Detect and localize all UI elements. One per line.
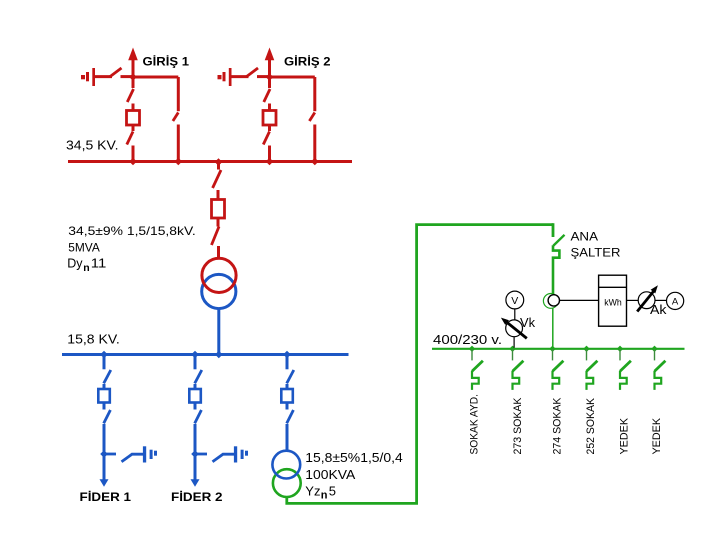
transformer circuit breaker box (212, 200, 225, 219)
feeder GİRİŞ 2 incoming arrow (265, 48, 275, 78)
disconnector below breaker of GİRİŞ 1 (127, 125, 133, 162)
voltmeter V (506, 291, 524, 309)
circuit breaker box of GİRİŞ 1 (127, 111, 140, 126)
circuit breaker box of GİRİŞ 2 (263, 111, 276, 126)
svg-text:GİRİŞ 1: GİRİŞ 1 (143, 53, 190, 68)
svg-text:273 SOKAK: 273 SOKAK (512, 397, 524, 455)
disconnector above transformer breaker (213, 162, 221, 200)
node at top of GİRİŞ 1 branch (129, 73, 137, 81)
node of 252 SOKAK on 400V bus (583, 346, 589, 352)
wire kWh to Ak (627, 299, 639, 301)
voltmeter selector switch Vk (501, 318, 527, 339)
svg-text:FİDER 2: FİDER 2 (171, 489, 223, 504)
node of YEDEK on 400V bus (617, 346, 623, 352)
disconnector below breaker of FİDER 2 (195, 403, 202, 424)
disconnector above breaker of FİDER 1 (104, 355, 111, 390)
svg-text:Vk: Vk (520, 316, 536, 330)
node of FİDER 1 on 15,8kV bus (100, 351, 108, 359)
main switch ANA SALTER (553, 223, 565, 294)
svg-text:FİDER 1: FİDER 1 (80, 489, 132, 504)
breaker of 252 SOKAK (587, 349, 598, 390)
power transformer LV winding (202, 274, 236, 308)
svg-text:ŞALTER: ŞALTER (571, 245, 621, 259)
ammeter A (667, 292, 684, 309)
wire to bypass branch of GİRİŞ 2 (270, 76, 315, 79)
bus junction node of GİRİŞ 2 bypass (311, 158, 319, 166)
circuit breaker box of FİDER 1 (98, 389, 110, 403)
node of 273 SOKAK on 400V bus (509, 346, 515, 352)
bypass disconnector branch of GİRİŞ 2 (309, 77, 314, 162)
node of SOKAK AYD. on 400V bus (469, 346, 475, 352)
svg-text:YEDEK: YEDEK (619, 417, 631, 454)
svg-text:Yz: Yz (305, 483, 320, 498)
svg-text:GİRİŞ 2: GİRİŞ 2 (284, 53, 331, 68)
node of FİDER 2 on 15,8kV bus (191, 351, 199, 359)
wire CT to LV bus (552, 308, 554, 347)
earthing switch of FİDER 1 (104, 446, 157, 462)
earthing switch ground symbol for GİRİŞ 2 (218, 68, 232, 86)
svg-text:YEDEK: YEDEK (651, 417, 663, 454)
wire of FİDER 2 (194, 424, 197, 454)
LV wire from transformer up to main switch (287, 225, 553, 504)
wire V to Vk (514, 309, 516, 320)
breaker of 273 SOKAK (513, 349, 524, 390)
earthing switch ground symbol for GİRİŞ 1 (81, 68, 95, 86)
disconnector below transformer breaker (212, 218, 220, 259)
earthing node of FİDER 1 (100, 450, 108, 458)
current transformer green circle (543, 294, 558, 309)
disconnector below breaker of GİRİŞ 2 (263, 125, 269, 162)
disconnector below breaker of distribution transformer feeder (287, 403, 294, 424)
svg-text:15,8 KV.: 15,8 KV. (67, 333, 120, 347)
wire to bypass branch of GİRİŞ 1 (133, 76, 178, 79)
transformer feeder node on 34,5kV bus (215, 158, 223, 166)
wire CT to kWh meter (560, 299, 599, 301)
bus junction node of GİRİŞ 1 (129, 158, 137, 166)
distribution transformer vector group Yzn5 (305, 483, 336, 501)
earthing switch of FİDER 2 (195, 446, 248, 462)
disconnector above breaker of GİRİŞ 1 (127, 77, 133, 111)
transformer vector group label Dyn11 (67, 257, 106, 274)
breaker of 274 SOKAK (553, 349, 564, 390)
svg-text:5: 5 (329, 483, 336, 498)
bus junction node of GİRİŞ 1 bypass (175, 158, 183, 166)
wire of FİDER 1 (103, 424, 106, 454)
wire transformer to 15,8kV bus (217, 308, 220, 354)
svg-text:34,5 KV.: 34,5 KV. (66, 138, 119, 152)
disconnector above breaker of FİDER 2 (195, 355, 202, 390)
power transformer HV winding (202, 258, 236, 292)
node of distribution transformer feeder on 15,8kV bus (283, 351, 291, 359)
svg-text:11: 11 (91, 257, 107, 271)
node of 274 SOKAK on 400V bus (549, 346, 555, 352)
current transformer black circle (548, 295, 559, 306)
svg-text:SOKAK AYD.: SOKAK AYD. (469, 394, 481, 455)
svg-text:400/230 v.: 400/230 v. (433, 332, 502, 347)
svg-text:274 SOKAK: 274 SOKAK (551, 397, 563, 455)
15,8 kV busbar (62, 353, 349, 356)
node at top of GİRİŞ 2 branch (266, 73, 274, 81)
wire to distribution transformer (286, 424, 289, 451)
svg-text:ANA: ANA (571, 229, 599, 243)
bypass disconnector branch of GİRİŞ 1 (173, 77, 178, 162)
svg-text:V: V (511, 295, 518, 307)
earthing switch for GİRİŞ 1 (95, 68, 133, 77)
breaker of YEDEK (655, 349, 666, 390)
breaker of YEDEK (620, 349, 631, 390)
wire Ak to A (655, 299, 667, 301)
feeder GİRİŞ 1 incoming arrow (128, 48, 138, 78)
distribution transformer LV winding (273, 469, 301, 497)
svg-text:15,8±5%1,5/0,4: 15,8±5%1,5/0,4 (305, 450, 403, 465)
disconnector above breaker of distribution transformer feeder (287, 355, 294, 390)
disconnector above breaker of GİRİŞ 2 (264, 77, 270, 111)
svg-text:252 SOKAK: 252 SOKAK (585, 397, 597, 454)
circuit breaker box of FİDER 2 (189, 389, 201, 403)
svg-text:Dy: Dy (67, 257, 83, 271)
34,5 kV busbar (68, 160, 352, 163)
earthing switch for GİRİŞ 2 (232, 68, 270, 77)
node transformer on 15,8kV bus (215, 351, 223, 359)
breaker of SOKAK AYD. (472, 349, 483, 390)
circuit breaker box of distribution transformer feeder (281, 389, 293, 403)
bus junction node of GİRİŞ 2 (266, 158, 274, 166)
outgoing arrow of FİDER 2 (191, 454, 200, 487)
svg-text:34,5±9% 1,5/15,8kV.: 34,5±9% 1,5/15,8kV. (68, 224, 195, 238)
svg-text:5MVA: 5MVA (68, 240, 100, 254)
outgoing arrow of FİDER 1 (100, 454, 109, 487)
400/230V busbar (432, 348, 685, 350)
ammeter selector switch Ak (637, 285, 658, 311)
svg-text:n: n (83, 262, 89, 274)
svg-text:n: n (321, 490, 328, 502)
disconnector below breaker of FİDER 1 (104, 403, 111, 424)
svg-text:A: A (672, 296, 679, 307)
node of YEDEK on 400V bus (651, 346, 657, 352)
kWh meter box (599, 275, 627, 326)
distribution transformer HV winding (272, 451, 300, 479)
svg-text:100KVA: 100KVA (305, 467, 355, 482)
svg-text:kWh: kWh (604, 298, 622, 308)
earthing node of FİDER 2 (191, 450, 199, 458)
wire Vk to bus (513, 337, 515, 348)
svg-text:Ak: Ak (650, 303, 667, 317)
